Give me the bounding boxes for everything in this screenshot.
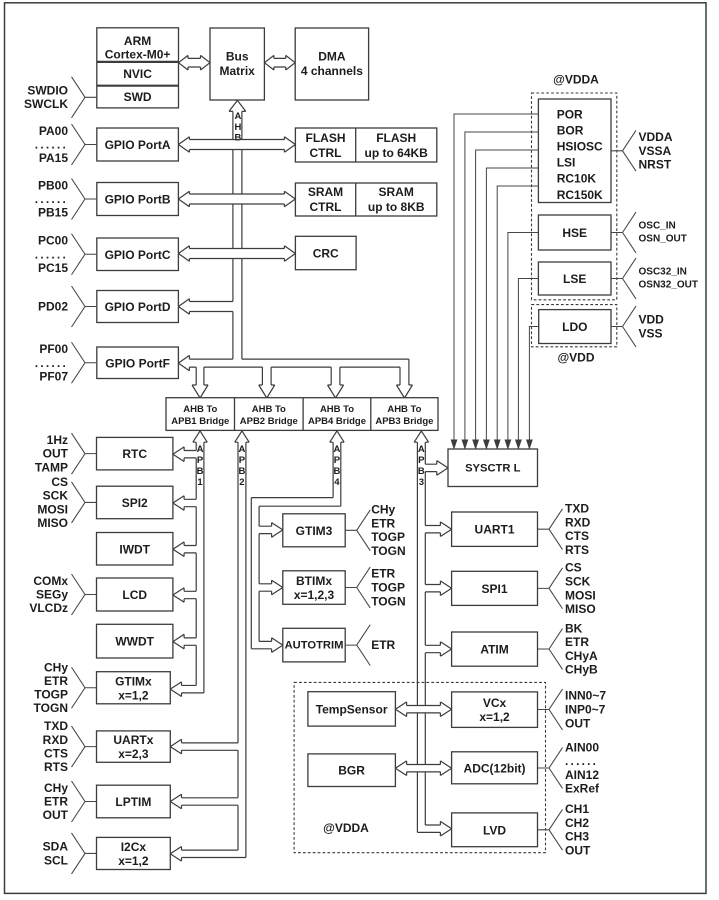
arrowheads: clock source wires into SYSCTRL [451,440,532,449]
svg-text:OSC32_IN: OSC32_IN [639,267,687,278]
svg-text:LDO: LDO [562,320,587,334]
svg-text:x=1,2,3: x=1,2,3 [294,588,335,602]
svg-text:OSC_IN: OSC_IN [639,221,676,232]
pins: SPI2 CS/SCK/MOSI/MISO [37,475,96,530]
svg-text:1: 1 [197,477,203,488]
label: APB4 bus [334,444,341,488]
svg-text:TXD: TXD [565,502,589,516]
svg-text:HSIOSC: HSIOSC [557,140,603,154]
box: Bus Matrix [210,28,264,100]
svg-text:OUT: OUT [43,447,69,461]
svg-text:4 channels: 4 channels [301,64,363,78]
pins: LCD COMx/SEGy/VLCDz [29,574,96,615]
svg-text:......: ...... [35,356,68,370]
svg-text:up to 64KB: up to 64KB [365,146,429,160]
dashed region @VDDA analog [294,682,545,852]
svg-text:MOSI: MOSI [37,502,68,516]
wire: reset/clock sources to SYSCTRL [454,114,539,449]
box: VCx [452,692,538,728]
wire: AHB to GPIO PortB / SRAM CTRL arrow [178,191,295,206]
svg-text:TOGN: TOGN [371,544,405,558]
svg-text:VDD: VDD [639,313,665,327]
svg-text:FLASH: FLASH [376,131,416,145]
svg-text:CRC: CRC [313,247,339,261]
svg-text:VSSA: VSSA [639,144,672,158]
wire: ARM to Bus Matrix double arrow [179,55,211,70]
svg-text:H: H [234,122,241,133]
svg-text:VCx: VCx [483,696,507,710]
svg-text:RTS: RTS [44,760,68,774]
svg-text:LSE: LSE [563,272,586,286]
pins: SPI1 CS/SCK/MOSI/MISO [538,561,596,616]
svg-text:AHB To: AHB To [320,404,354,415]
box: IWDT [97,533,173,566]
svg-text:P: P [239,455,246,466]
svg-text:TOGP: TOGP [371,581,405,595]
svg-text:B: B [239,466,246,477]
svg-text:GPIO PortC: GPIO PortC [105,248,171,262]
svg-text:ETR: ETR [371,638,395,652]
box: I2Cx [97,837,171,869]
pins: AUTOTRIM ETR [345,625,395,666]
svg-text:A: A [197,444,204,455]
svg-text:BGR: BGR [338,764,365,778]
pins: PF00..PF07 [35,342,97,383]
svg-text:CTRL: CTRL [310,200,342,214]
svg-text:BK: BK [565,621,583,635]
svg-text:SEGy: SEGy [36,588,68,602]
svg-text:CHy: CHy [371,503,395,517]
label @VDD [557,351,594,365]
box: SPI1 [452,571,538,605]
svg-text:APB3 Bridge: APB3 Bridge [375,416,433,427]
svg-text:GPIO PortF: GPIO PortF [105,356,170,370]
pins: UART1 TXD/RXD/CTS/RTS [538,502,591,557]
svg-text:RXD: RXD [43,733,69,747]
svg-text:APB2 Bridge: APB2 Bridge [240,416,298,427]
box: LVD [452,813,538,847]
svg-text:RTC: RTC [122,447,147,461]
svg-text:AIN12: AIN12 [565,768,599,782]
box: RTC [97,437,173,470]
svg-text:SRAM: SRAM [308,185,343,199]
svg-text:A: A [234,111,241,122]
svg-text:TOGN: TOGN [371,594,405,608]
svg-text:WWDT: WWDT [115,635,154,649]
wire: APB3 bus and branches (SYSCTRL,UART1,SPI1,ATIM,analog) [395,431,451,836]
pins: PB00..PB15 [35,178,97,219]
svg-text:CHy: CHy [44,660,68,674]
svg-text:TempSensor: TempSensor [316,702,388,716]
box: SYSCTRL [448,449,538,487]
svg-text:SWDIO: SWDIO [27,84,68,98]
svg-text:I2Cx: I2Cx [121,840,147,854]
svg-text:CH3: CH3 [565,830,589,844]
svg-text:CTS: CTS [565,529,589,543]
svg-text:OUT: OUT [565,844,591,858]
svg-text:PF00: PF00 [39,342,68,356]
svg-text:Bus: Bus [226,50,249,64]
svg-text:AIN00: AIN00 [565,740,599,754]
svg-text:ADC(12bit): ADC(12bit) [464,761,526,775]
pins: VCx INN0~7/INP0~7/OUT [538,689,607,731]
svg-text:SWCLK: SWCLK [24,97,68,111]
svg-text:AHB To: AHB To [387,404,421,415]
pins: PD02 [38,286,97,327]
svg-text:INP0~7: INP0~7 [565,703,606,717]
svg-text:CS: CS [565,561,582,575]
pins: I2Cx SDA/SCL [43,833,97,874]
svg-text:4: 4 [334,477,340,488]
svg-text:ATIM: ATIM [480,643,508,657]
svg-text:GTIMx: GTIMx [115,674,152,688]
svg-text:CH1: CH1 [565,802,589,816]
svg-text:UARTx: UARTx [113,733,153,747]
box: UART1 [452,512,538,546]
svg-text:SDA: SDA [43,840,69,854]
svg-text:A: A [418,444,425,455]
pins: PC00..PC15 [35,234,97,275]
pins: RTC 1Hz/OUT/TAMP [35,433,97,474]
svg-text:ETR: ETR [565,635,589,649]
label: APB3 bus [418,444,425,488]
svg-text:LPTIM: LPTIM [115,795,151,809]
wire: AHB manifold to bridges / GPIO PortF arrow [178,355,409,370]
svg-text:ARM: ARM [124,34,151,48]
svg-text:LVD: LVD [483,823,506,837]
svg-text:A: A [239,444,246,455]
svg-text:AHB To: AHB To [252,404,286,415]
svg-text:CHyA: CHyA [565,649,598,663]
box: ATIM [452,632,538,666]
svg-text:ExRef: ExRef [565,782,600,796]
svg-text:POR: POR [557,107,583,121]
svg-text:x=1,2: x=1,2 [479,710,510,724]
svg-text:MISO: MISO [37,516,68,530]
wire: APB4 bus and branches (GTIM3,BTIMx,AUTOTRIM) [251,431,344,653]
svg-text:Matrix: Matrix [220,64,256,78]
svg-text:OUT: OUT [43,808,69,822]
box: WWDT [97,624,173,658]
svg-text:FLASH: FLASH [306,131,346,145]
svg-text:NRST: NRST [639,158,672,172]
wire: Bus Matrix to DMA double arrow [264,55,295,70]
svg-text:VLCDz: VLCDz [29,601,68,615]
svg-text:ETR: ETR [44,674,68,688]
svg-text:UART1: UART1 [475,523,515,537]
svg-text:MISO: MISO [565,602,596,616]
pins: SWDIO/SWCLK [24,77,97,118]
svg-text:......: ...... [35,192,68,206]
wire: AHB down arrow into bridge at x=404.45 [396,359,412,398]
svg-text:CS: CS [51,475,68,489]
svg-text:GPIO PortA: GPIO PortA [105,138,171,152]
pins: ATIM BK/ETR/CHyA/CHyB [538,621,599,676]
svg-text:A: A [334,444,341,455]
wire: AHB to GPIO PortC / CRC arrow [178,246,295,261]
box: LSE [538,262,611,295]
svg-text:RXD: RXD [565,515,591,529]
box: AUTOTRIM [283,628,345,662]
svg-text:APB1 Bridge: APB1 Bridge [171,416,229,427]
svg-text:SCL: SCL [44,853,68,867]
svg-text:CHy: CHy [44,781,68,795]
box: DMA 4 channels [295,28,368,100]
svg-text:P: P [197,455,204,466]
box: BTIMx [283,571,345,605]
svg-text:SCK: SCK [565,574,591,588]
box: GTIM3 [283,514,345,547]
svg-text:IWDT: IWDT [119,542,150,556]
box: GPIO PortA [97,128,179,161]
svg-text:CTRL: CTRL [310,146,342,160]
svg-text:NVIC: NVIC [123,67,152,81]
label @VDDA top [553,73,599,87]
pins: UARTx TXD/RXD/CTS/RTS [43,719,97,774]
box: AHB-APB bridges [166,398,438,431]
svg-text:......: ...... [565,754,598,768]
svg-text:Cortex-M0+: Cortex-M0+ [105,48,171,62]
svg-text:@VDD: @VDD [557,351,594,365]
svg-text:TOGN: TOGN [34,701,68,715]
svg-text:GTIM3: GTIM3 [296,524,333,538]
svg-text:x=2,3: x=2,3 [118,747,149,761]
pins: BTIMx ETR/TOGP/TOGN [345,567,405,609]
label: APB1 bus [197,444,204,488]
svg-text:@VDDA: @VDDA [323,821,369,835]
svg-text:TOGP: TOGP [371,530,405,544]
box: GPIO PortC [97,238,179,271]
box: LCD [97,578,173,611]
svg-text:SPI2: SPI2 [122,496,148,510]
box: GPIO PortF [97,347,179,379]
wire: AHB system bus (vertical) [229,100,246,359]
svg-text:ETR: ETR [44,795,68,809]
svg-text:APB4 Bridge: APB4 Bridge [308,416,366,427]
wire: AHB to GPIO PortA / FLASH CTRL arrow [178,137,295,152]
svg-text:CTS: CTS [44,746,68,760]
svg-text:CH2: CH2 [565,816,589,830]
svg-text:B: B [334,466,341,477]
pins: GTIMx CHy/ETR/TOGP/TOGN [34,660,97,715]
svg-text:TAMP: TAMP [35,460,68,474]
svg-text:B: B [234,133,241,144]
svg-text:VDDA: VDDA [639,130,673,144]
wire: APB2 bus and branches (UARTx,LPTIM,I2Cx) [170,431,249,861]
svg-text:ETR: ETR [371,516,395,530]
dashed region @VDDA (POR/HSE/LSE) [532,93,617,300]
svg-text:CHyB: CHyB [565,663,598,677]
pins: HSE OSC_IN/OSN_OUT [611,212,687,253]
svg-text:x=1,2: x=1,2 [118,854,149,868]
svg-text:x=1,2: x=1,2 [118,688,149,702]
pins: PA00..PA15 [35,124,97,165]
svg-text:RC150K: RC150K [557,188,603,202]
box: LDO [539,310,611,344]
pins: LSE OSC32_IN/OSN32_OUT [611,258,698,299]
svg-text:SCK: SCK [43,489,69,503]
box: TempSensor [308,692,396,726]
svg-text:DMA: DMA [318,50,346,64]
box: GTIMx [97,672,171,704]
svg-text:INN0~7: INN0~7 [565,689,606,703]
svg-text:PB00: PB00 [38,178,68,192]
svg-text:OSN_OUT: OSN_OUT [639,234,687,245]
svg-text:PA00: PA00 [39,124,68,138]
box: BGR [308,754,396,787]
svg-text:PD02: PD02 [38,300,68,314]
svg-text:TOGP: TOGP [34,688,68,702]
box: ADC(12bit) [452,752,538,784]
box: CRC [295,236,356,269]
svg-text:PA15: PA15 [39,151,68,165]
svg-text:PC15: PC15 [38,261,68,275]
svg-text:VSS: VSS [639,326,663,340]
svg-text:OSN32_OUT: OSN32_OUT [639,280,698,291]
svg-text:......: ...... [35,247,68,261]
label: APB2 bus [239,444,246,488]
wire: AHB down arrow into bridge at x=335.55 [328,367,344,398]
svg-text:COMx: COMx [33,574,68,588]
box: GPIO PortB [97,183,179,216]
svg-text:SWD: SWD [124,90,152,104]
wire: AHB down arrow into bridge at x=266.75 [259,367,275,398]
svg-text:GPIO PortD: GPIO PortD [105,300,171,314]
svg-text:3: 3 [419,477,424,488]
svg-text:TXD: TXD [44,719,68,733]
svg-text:LSI: LSI [557,156,576,170]
label @VDDA analog [323,821,369,835]
wire: AHB to GPIO PortD arrow [178,299,233,314]
pins: POR VDDA/VSSA/NRST [611,130,673,172]
svg-text:SYSCTR L: SYSCTR L [465,462,520,474]
box: GPIO PortD [97,291,179,323]
wire: AHB down arrow into bridge at x=200.05 [192,367,208,398]
dashed region @VDD (LDO) [532,305,617,347]
pins: LPTIM CHy/ETR/OUT [43,781,97,822]
pins: ADC AIN00..AIN12/ExRef [538,740,601,795]
box: UARTx [97,731,171,762]
box: POR/BOR/HSIOSC/LSI/RC10K/RC150K [538,99,611,203]
svg-text:SRAM: SRAM [379,185,414,199]
svg-text:RTS: RTS [565,543,589,557]
svg-text:OUT: OUT [565,716,591,730]
svg-text:......: ...... [35,138,68,152]
svg-text:AHB To: AHB To [183,404,217,415]
pins: LVD CH1/CH2/CH3/OUT [538,802,592,857]
box: FLASH CTRL + FLASH up to 64KB [295,128,436,162]
svg-text:MOSI: MOSI [565,588,596,602]
svg-text:RC10K: RC10K [557,172,597,186]
svg-text:B: B [197,466,204,477]
box: ARM Cortex-M0+ / NVIC / SWD [97,28,179,108]
pins: GTIM3 CHy/ETR/TOGP/TOGN [345,503,405,558]
svg-text:P: P [418,455,425,466]
wire: APB1 bus and branches (RTC,SPI2,IWDT,LCD,WWDT,GTIMx) [170,431,207,697]
box: SPI2 [97,486,173,519]
svg-text:P: P [334,455,341,466]
box: HSE [538,215,611,250]
box: SRAM CTRL + SRAM up to 8KB [295,183,436,216]
svg-text:GPIO PortB: GPIO PortB [105,193,171,207]
svg-text:1Hz: 1Hz [47,433,68,447]
svg-text:ETR: ETR [371,567,395,581]
svg-text:LCD: LCD [122,588,147,602]
svg-text:BOR: BOR [557,123,584,137]
svg-text:up to 8KB: up to 8KB [368,200,425,214]
svg-text:HSE: HSE [562,226,587,240]
svg-text:2: 2 [239,477,244,488]
svg-text:B: B [418,466,425,477]
svg-text:SPI1: SPI1 [482,582,508,596]
svg-text:PB15: PB15 [38,206,68,220]
svg-text:@VDDA: @VDDA [553,73,599,87]
svg-text:AUTOTRIM: AUTOTRIM [285,640,344,652]
label: AHB bus [234,111,241,144]
pins: LDO VDD/VSS [611,306,664,347]
svg-text:PF07: PF07 [39,369,68,383]
svg-text:PC00: PC00 [38,234,68,248]
box: LPTIM [97,785,171,818]
svg-text:BTIMx: BTIMx [296,574,332,588]
